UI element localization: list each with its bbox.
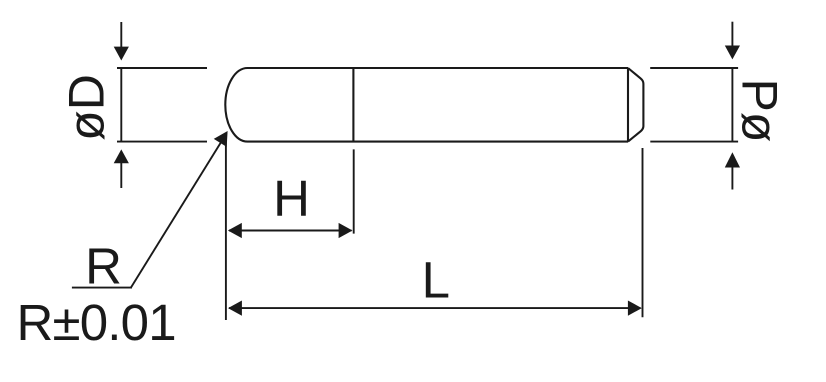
øD bottom arrow (114, 149, 129, 188)
L right arrowhead (628, 301, 642, 316)
pin head boundary line (352, 68, 354, 142)
pin end face line (627, 68, 629, 142)
R leader diagonal line (131, 139, 223, 288)
H left arrowhead (228, 223, 242, 238)
R leader arrowhead (214, 127, 234, 147)
H right arrowhead (339, 223, 353, 238)
øD top extension line (117, 67, 207, 69)
øD top arrow (114, 22, 129, 61)
R leader underline (72, 287, 132, 289)
Pø bottom arrow (725, 152, 740, 189)
Pø top arrow (725, 22, 740, 60)
svg-text:R±0.01: R±0.01 (17, 294, 176, 351)
L right extension line (642, 148, 644, 317)
svg-text:H: H (273, 170, 310, 227)
svg-text:Pø: Pø (732, 79, 788, 143)
øD bottom extension line (117, 141, 207, 143)
L left arrowhead (228, 301, 242, 316)
pin body outline (225, 68, 628, 142)
H left extension line (225, 139, 227, 320)
H dimension line (229, 230, 352, 232)
Pø dimension line (731, 68, 733, 142)
svg-text:øD: øD (59, 74, 115, 141)
H right extension line (353, 149, 355, 233)
L dimension line (229, 307, 641, 309)
svg-text:L: L (422, 252, 450, 309)
pin chamfered tip (628, 68, 643, 142)
svg-text:R: R (85, 237, 122, 294)
øD dimension line (120, 68, 122, 142)
Pø bottom extension line (650, 141, 738, 143)
Pø top extension line (650, 67, 738, 69)
